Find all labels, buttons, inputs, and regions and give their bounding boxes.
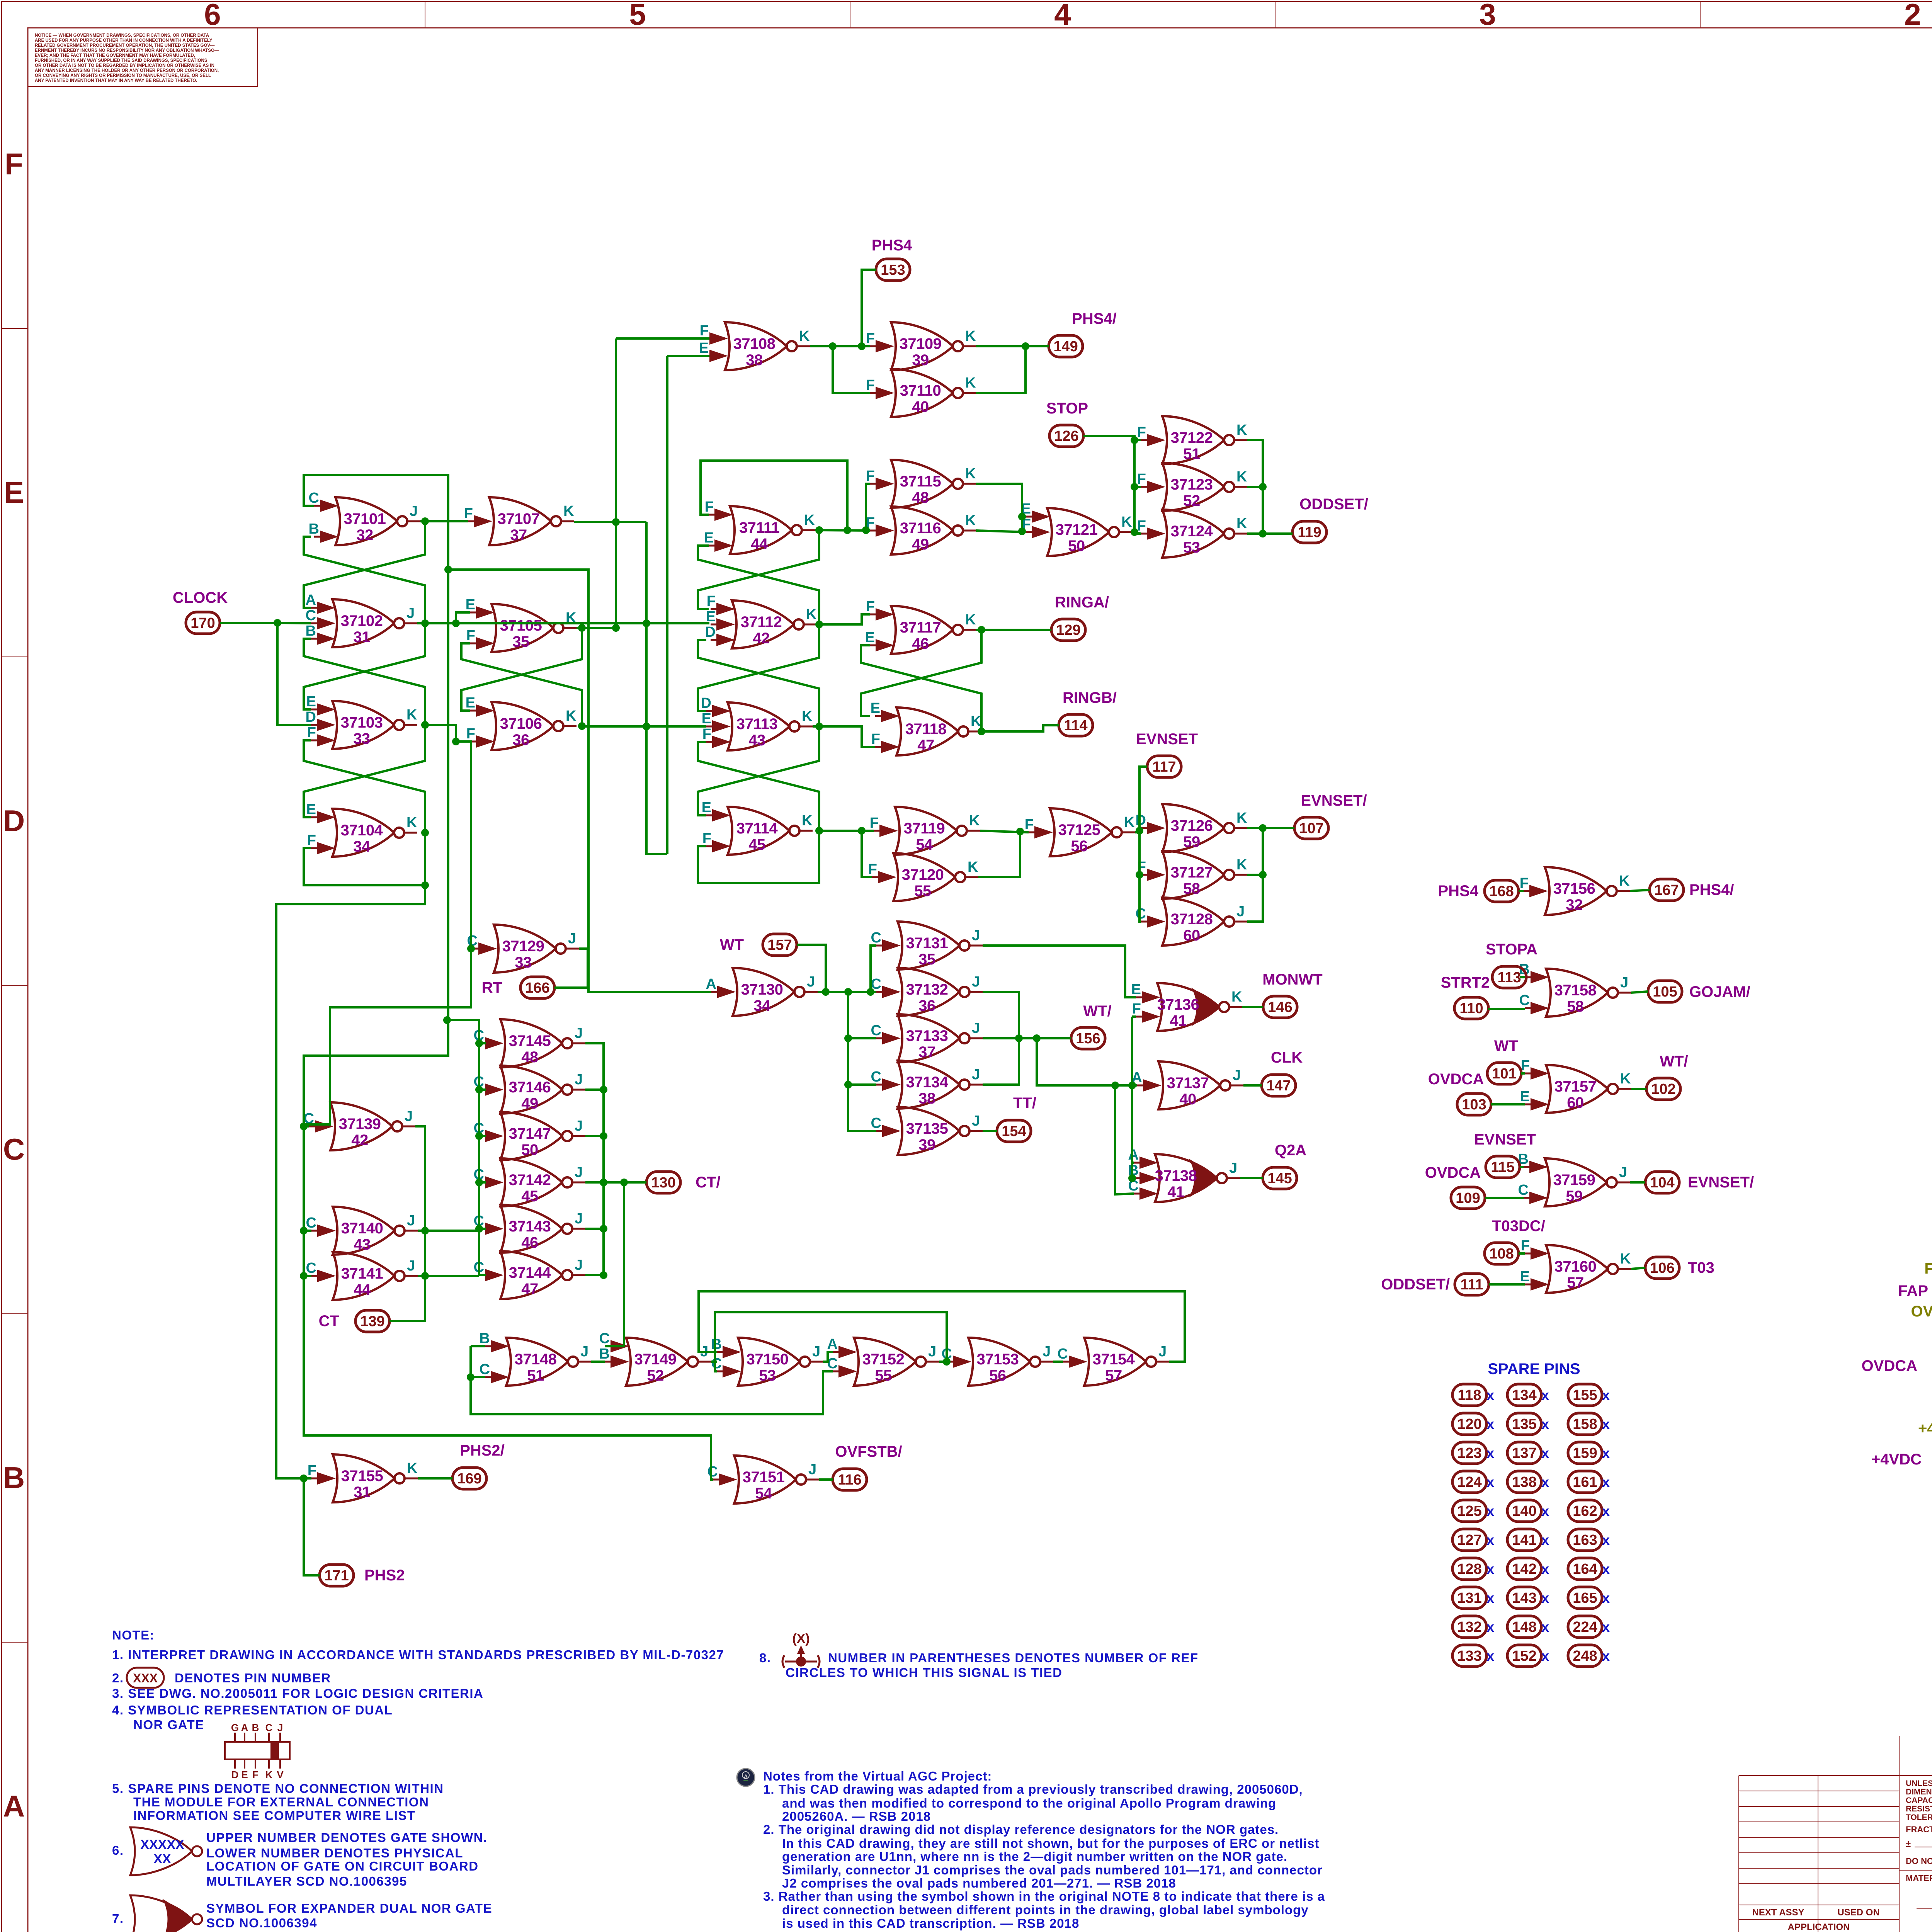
wire cross 37112/37113 upper-out to lower-in bbox=[698, 624, 819, 711]
svg-text:44: 44 bbox=[751, 536, 768, 553]
svg-text:THE MODULE FOR EXTERNAL CONNEC: THE MODULE FOR EXTERNAL CONNECTION bbox=[133, 1795, 429, 1809]
svg-text:2005260A. — RSB 2018: 2005260A. — RSB 2018 bbox=[782, 1809, 931, 1823]
NOR gate 37146 (location 49) bbox=[474, 1066, 585, 1114]
svg-text:149: 149 bbox=[1053, 338, 1078, 355]
wire 37109.K to pad 149 bbox=[976, 345, 1049, 347]
svg-text:direct connection between diff: direct connection between different poin… bbox=[782, 1903, 1309, 1917]
svg-text:38: 38 bbox=[746, 352, 763, 369]
svg-text:37139: 37139 bbox=[339, 1116, 381, 1133]
svg-text:152: 152 bbox=[1512, 1648, 1536, 1664]
svg-text:45: 45 bbox=[748, 836, 765, 853]
junction bbox=[1128, 1174, 1136, 1182]
svg-text:167: 167 bbox=[1654, 882, 1679, 898]
svg-text:119: 119 bbox=[1298, 524, 1321, 541]
junction bbox=[1111, 1082, 1119, 1089]
svg-text:INFORMATION SEE COMPUTER WIRE: INFORMATION SEE COMPUTER WIRE LIST bbox=[133, 1808, 416, 1823]
wire stack output trunk bbox=[585, 1043, 604, 1275]
wire 37153.J to 37154.C bbox=[1053, 1361, 1063, 1363]
svg-text:J: J bbox=[928, 1344, 936, 1360]
svg-text:OVDCA: OVDCA bbox=[1862, 1357, 1917, 1374]
wire jog to 37105.E bbox=[456, 612, 470, 623]
NOR gate 37133 (location 37) bbox=[871, 1014, 983, 1062]
svg-text:PHS4: PHS4 bbox=[1438, 883, 1479, 900]
svg-text:113: 113 bbox=[1497, 969, 1521, 986]
svg-text:F: F bbox=[700, 323, 709, 339]
junction bbox=[1131, 436, 1138, 444]
wire trunk to 37138.B bbox=[1132, 1017, 1134, 1178]
NOR gate 37139 (location 42) bbox=[304, 1102, 415, 1150]
connector pad pad 124 (spare) bbox=[1452, 1471, 1486, 1493]
svg-text:B: B bbox=[252, 1722, 259, 1733]
junction bbox=[643, 619, 650, 627]
svg-text:ANY PATENTED INVENTION THAT MA: ANY PATENTED INVENTION THAT MAY IN ANY W… bbox=[35, 78, 197, 83]
zone tick marks bbox=[425, 2, 425, 28]
svg-text:E: E bbox=[699, 340, 709, 356]
wire 37101.C loop to 37130.A bbox=[304, 475, 711, 992]
svg-text:F: F bbox=[707, 593, 716, 609]
wire 37127.K tie bbox=[1247, 874, 1263, 876]
svg-text:154: 154 bbox=[1002, 1123, 1026, 1139]
svg-text:F: F bbox=[1025, 816, 1034, 833]
title block bbox=[1738, 1776, 1739, 1932]
svg-text:J: J bbox=[277, 1722, 283, 1733]
svg-text:G: G bbox=[231, 1722, 239, 1733]
svg-text:111: 111 bbox=[1460, 1277, 1483, 1293]
svg-text:K: K bbox=[965, 328, 976, 344]
svg-text:x: x bbox=[1541, 1416, 1549, 1432]
svg-text:x: x bbox=[1486, 1648, 1494, 1664]
wire stack C stub bbox=[479, 1135, 486, 1137]
svg-text:x: x bbox=[1541, 1648, 1549, 1664]
svg-text:C: C bbox=[711, 1355, 722, 1372]
svg-text:37135: 37135 bbox=[906, 1120, 948, 1137]
svg-text:DO NOT SCALE THIS DRAWING: DO NOT SCALE THIS DRAWING bbox=[1906, 1856, 1932, 1866]
wire pad 101 to 37157.F bbox=[1521, 1072, 1525, 1075]
connector pad pad 113 (STOPA) bbox=[1492, 966, 1526, 988]
svg-text:106: 106 bbox=[1650, 1260, 1674, 1276]
svg-text:J: J bbox=[972, 974, 980, 990]
svg-text:x: x bbox=[1541, 1590, 1549, 1606]
wire 37141.J to 37144.C bbox=[418, 1275, 479, 1277]
svg-text:4: 4 bbox=[1054, 0, 1071, 31]
NOR gate 37111 (location 44) bbox=[704, 499, 815, 554]
svg-text:K: K bbox=[806, 606, 817, 622]
wire stack C stub bbox=[479, 1274, 486, 1276]
wire 37133.J to pad 156 bbox=[983, 1037, 1071, 1039]
svg-text:+4VDC: +4VDC bbox=[1871, 1451, 1922, 1468]
svg-text:and was then modified to corre: and was then modified to correspond to t… bbox=[782, 1796, 1276, 1810]
svg-text:37138: 37138 bbox=[1155, 1167, 1197, 1184]
wire to 37123.F bbox=[1134, 486, 1141, 488]
connector pad pad 135 (spare) bbox=[1507, 1413, 1541, 1435]
svg-text:35: 35 bbox=[918, 951, 935, 968]
Apollo patch logo bbox=[737, 1769, 755, 1786]
svg-text:37126: 37126 bbox=[1171, 817, 1213, 834]
svg-text:NOTICE — WHEN GOVERNMENT DRAWI: NOTICE — WHEN GOVERNMENT DRAWINGS, SPECI… bbox=[35, 33, 209, 38]
NOR gate 37158 (location 58) bbox=[1519, 961, 1631, 1017]
svg-text:56: 56 bbox=[989, 1367, 1006, 1384]
svg-text:F: F bbox=[1137, 424, 1146, 440]
svg-text:138: 138 bbox=[1512, 1474, 1536, 1490]
svg-text:J: J bbox=[1620, 975, 1628, 991]
wire 37118.K to pad 114 bbox=[981, 725, 1059, 731]
svg-text:D: D bbox=[701, 695, 711, 711]
svg-text:K: K bbox=[799, 328, 810, 344]
junction bbox=[300, 1272, 308, 1280]
svg-text:V: V bbox=[277, 1769, 284, 1781]
svg-text:Notes from the Virtual AGC Pro: Notes from the Virtual AGC Project: bbox=[763, 1769, 992, 1783]
connector pad pad 110 (STRT2) bbox=[1454, 997, 1488, 1019]
svg-text:110: 110 bbox=[1459, 1000, 1483, 1017]
svg-text:NUMBER IN PARENTHESES DENOTES: NUMBER IN PARENTHESES DENOTES NUMBER OF … bbox=[828, 1651, 1199, 1665]
svg-text:F: F bbox=[5, 147, 23, 181]
svg-text:37131: 37131 bbox=[906, 935, 948, 952]
NOR gate 37122 (location 51) bbox=[1137, 416, 1247, 464]
connector pad pad 167 (PHS4/) bbox=[1650, 879, 1684, 901]
connector pad pad 163 (spare) bbox=[1568, 1529, 1602, 1551]
connector pad pad 132 (spare) bbox=[1452, 1616, 1486, 1638]
svg-text:159: 159 bbox=[1573, 1445, 1597, 1461]
svg-text:D: D bbox=[1136, 812, 1146, 828]
svg-text:RINGB/: RINGB/ bbox=[1063, 689, 1117, 706]
svg-text:171: 171 bbox=[324, 1568, 349, 1584]
svg-text:RESISTOR VALUES ARE IN OHMS: RESISTOR VALUES ARE IN OHMS bbox=[1906, 1804, 1932, 1813]
svg-text:3. Rather than using the symbo: 3. Rather than using the symbol shown in… bbox=[763, 1889, 1325, 1903]
junction bbox=[600, 1225, 607, 1233]
wire stack C stub bbox=[479, 1042, 486, 1044]
NOR gate 37154 (location 57) bbox=[1058, 1338, 1169, 1386]
svg-text:37151: 37151 bbox=[743, 1469, 785, 1486]
svg-text:117: 117 bbox=[1152, 759, 1176, 775]
svg-text:37154: 37154 bbox=[1093, 1351, 1135, 1368]
svg-text:37144: 37144 bbox=[509, 1264, 551, 1281]
wire to 37148.C bbox=[471, 1376, 485, 1378]
svg-text:J: J bbox=[575, 1211, 583, 1227]
svg-text:K: K bbox=[969, 813, 980, 829]
wire 37123.K tie bbox=[1247, 486, 1263, 488]
NOR gate 37160 (location 57) bbox=[1520, 1238, 1631, 1293]
svg-text:PHS4/: PHS4/ bbox=[1072, 310, 1117, 327]
junction bbox=[844, 1081, 852, 1088]
svg-text:37107: 37107 bbox=[498, 510, 540, 527]
svg-text:x: x bbox=[1602, 1416, 1610, 1432]
connector pad pad 145 (Q2A) bbox=[1263, 1167, 1297, 1189]
svg-text:J: J bbox=[575, 1118, 583, 1134]
NOR gate 37125 (location 56) bbox=[1025, 808, 1135, 856]
junction bbox=[1136, 871, 1143, 879]
svg-text:OVDCA: OVDCA bbox=[1425, 1164, 1481, 1181]
svg-text:55: 55 bbox=[914, 883, 931, 900]
svg-text:F: F bbox=[705, 499, 714, 515]
connector pad pad 130 (CT/) bbox=[646, 1172, 680, 1193]
svg-text:37160: 37160 bbox=[1554, 1258, 1597, 1275]
connector pad pad 127 (spare) bbox=[1452, 1529, 1486, 1551]
junction bbox=[1259, 871, 1267, 879]
wire 37121.K to 37124.F bbox=[1132, 532, 1141, 534]
wire 37139.J trunk to CT pad 139 bbox=[389, 1126, 425, 1321]
NOR gate 37119 (location 54) bbox=[870, 807, 980, 855]
svg-text:116: 116 bbox=[838, 1472, 861, 1488]
connector pad pad 134 (spare) bbox=[1507, 1384, 1541, 1406]
svg-text:37147: 37147 bbox=[509, 1125, 551, 1142]
junction bbox=[844, 1034, 852, 1042]
svg-text:37111: 37111 bbox=[739, 519, 780, 536]
svg-text:163: 163 bbox=[1573, 1532, 1597, 1548]
NOR gate 37159 (location 59) bbox=[1518, 1151, 1630, 1206]
svg-text:K: K bbox=[965, 375, 976, 391]
wire pad 113 to 37158.B bbox=[1520, 976, 1525, 978]
wire to 37122.F bbox=[1134, 439, 1141, 441]
svg-text:55: 55 bbox=[875, 1367, 892, 1384]
svg-text:133: 133 bbox=[1457, 1648, 1481, 1664]
svg-text:J: J bbox=[1158, 1344, 1167, 1360]
NOR gate 37153 (location 56) bbox=[942, 1338, 1053, 1386]
wire trunk to 37151.C bbox=[304, 570, 713, 1480]
wire 37132/37134.J tie bbox=[983, 992, 1019, 1085]
wire to 37140.C bbox=[304, 1230, 311, 1232]
NOR gate 37124 (location 53) bbox=[1137, 510, 1247, 558]
connector pad pad 117 (EVNSET) bbox=[1147, 756, 1181, 777]
svg-text:137: 137 bbox=[1512, 1445, 1536, 1461]
svg-text:B: B bbox=[3, 1461, 25, 1495]
svg-text:155: 155 bbox=[1573, 1387, 1597, 1403]
svg-text:UNLESS OTHERWISE SPECIFIED: UNLESS OTHERWISE SPECIFIED bbox=[1906, 1779, 1932, 1788]
junction bbox=[815, 621, 823, 628]
junction bbox=[1131, 483, 1138, 491]
svg-text:K: K bbox=[965, 612, 976, 628]
junction bbox=[421, 721, 429, 729]
svg-text:3: 3 bbox=[1479, 0, 1496, 31]
svg-text:A: A bbox=[744, 1773, 748, 1779]
NOR gate 37120 (location 55) bbox=[868, 853, 978, 901]
svg-text:42: 42 bbox=[351, 1132, 368, 1149]
wire to 37108.E bbox=[667, 355, 709, 357]
wire to 37141.C bbox=[304, 1275, 311, 1277]
svg-text:EVNSET: EVNSET bbox=[1474, 1131, 1536, 1148]
NOR gate 37152 (location 55) bbox=[827, 1336, 939, 1386]
svg-text:x: x bbox=[1541, 1503, 1549, 1519]
connector pad pad 224 (spare) bbox=[1568, 1616, 1602, 1638]
NOR gate 37130 (location 34) bbox=[706, 968, 818, 1016]
svg-text:164: 164 bbox=[1573, 1561, 1597, 1577]
svg-text:F: F bbox=[866, 330, 875, 347]
svg-text:143: 143 bbox=[1512, 1590, 1536, 1606]
connector pad pad 137 (spare) bbox=[1507, 1442, 1541, 1464]
svg-text:J: J bbox=[580, 1344, 588, 1360]
svg-text:37114: 37114 bbox=[736, 820, 778, 837]
connector pad pad 248 (spare) bbox=[1568, 1645, 1602, 1667]
junction bbox=[600, 1271, 607, 1279]
svg-text:E: E bbox=[306, 801, 316, 818]
svg-text:135: 135 bbox=[1512, 1416, 1536, 1432]
svg-text:LOCATION OF GATE ON CIRCUIT BO: LOCATION OF GATE ON CIRCUIT BOARD bbox=[206, 1859, 479, 1873]
svg-text:132: 132 bbox=[1457, 1619, 1481, 1635]
svg-text:K: K bbox=[563, 503, 574, 519]
wire to EVNSET pad 117 bbox=[1139, 767, 1147, 831]
svg-text:60: 60 bbox=[1183, 927, 1200, 944]
svg-text:SPARE PINS: SPARE PINS bbox=[1488, 1361, 1580, 1378]
NOR gate 37151 (location 54) bbox=[707, 1456, 819, 1503]
svg-text:40: 40 bbox=[1179, 1091, 1196, 1108]
svg-text:NEXT ASSY: NEXT ASSY bbox=[1752, 1907, 1804, 1918]
svg-text:Similarly, connector J1 compri: Similarly, connector J1 comprises the ov… bbox=[782, 1863, 1323, 1877]
svg-text:37150: 37150 bbox=[747, 1351, 789, 1368]
wire 37129.J to RT pad 166 bbox=[554, 949, 588, 988]
connector pad pad 102 (WT/) bbox=[1646, 1078, 1680, 1100]
junction bbox=[475, 1179, 483, 1186]
svg-text:58: 58 bbox=[1567, 998, 1584, 1015]
wire 37155.K to pad 169 bbox=[418, 1477, 452, 1480]
svg-text:37: 37 bbox=[510, 527, 527, 544]
wire to CT/ pad 130 bbox=[604, 1181, 646, 1184]
wire 37148.J to 37149.B bbox=[591, 1361, 605, 1363]
svg-text:37101: 37101 bbox=[344, 510, 386, 527]
svg-text:C: C bbox=[306, 1260, 316, 1276]
connector pad pad 125 (spare) bbox=[1452, 1500, 1486, 1522]
connector pad pad 170 (CLOCK) bbox=[186, 612, 220, 634]
junction bbox=[421, 619, 429, 627]
svg-text:x: x bbox=[1602, 1387, 1610, 1403]
svg-text:108: 108 bbox=[1489, 1246, 1514, 1262]
wire 37112.K to 37117.F bbox=[817, 614, 870, 624]
connector pad pad 155 (spare) bbox=[1568, 1384, 1602, 1406]
connector pad pad 123 (spare) bbox=[1452, 1442, 1486, 1464]
wire 37125.K to 37126.D bbox=[1135, 828, 1141, 832]
svg-text:K: K bbox=[1236, 469, 1247, 485]
svg-text:35: 35 bbox=[512, 633, 529, 650]
junction bbox=[475, 1086, 483, 1094]
wire 37138.J to Q2A pad 145 bbox=[1240, 1177, 1263, 1179]
connector pad pad 119 (ODDSET/) bbox=[1293, 521, 1327, 543]
NOR gate 37105 (location 35) bbox=[466, 597, 577, 652]
svg-text:K: K bbox=[1236, 515, 1247, 532]
connector pad pad 152 (spare) bbox=[1507, 1645, 1541, 1667]
svg-text:A: A bbox=[3, 1789, 25, 1823]
NOR gate 37123 (location 52) bbox=[1137, 463, 1247, 511]
wire stub to 37138.A bbox=[1132, 1162, 1134, 1164]
svg-text:RT: RT bbox=[482, 979, 502, 996]
svg-text:WT/: WT/ bbox=[1083, 1003, 1111, 1020]
svg-text:2. The original drawing did no: 2. The original drawing did not display … bbox=[763, 1822, 1279, 1837]
svg-text:37130: 37130 bbox=[741, 981, 783, 998]
svg-text:37108: 37108 bbox=[733, 335, 776, 352]
svg-text:128: 128 bbox=[1457, 1561, 1481, 1577]
svg-text:ODDSET/: ODDSET/ bbox=[1299, 496, 1368, 513]
svg-text:57: 57 bbox=[1105, 1367, 1122, 1384]
svg-text:K: K bbox=[566, 708, 577, 724]
svg-text:E: E bbox=[1520, 1088, 1530, 1105]
svg-text:124: 124 bbox=[1457, 1474, 1481, 1490]
svg-text:3. SEE DWG. NO.2005011 FOR LO: 3. SEE DWG. NO.2005011 FOR LOGIC DESIGN … bbox=[112, 1686, 483, 1701]
svg-text:34: 34 bbox=[753, 997, 771, 1014]
wire stack J tie bbox=[585, 1181, 604, 1184]
svg-text:E: E bbox=[241, 1769, 248, 1781]
svg-text:41: 41 bbox=[1167, 1184, 1184, 1201]
svg-text:56: 56 bbox=[1071, 838, 1088, 855]
svg-text:A: A bbox=[241, 1722, 248, 1733]
svg-text:K: K bbox=[407, 1460, 418, 1476]
NOR gate 37136 (location 41) bbox=[1131, 981, 1242, 1031]
svg-text:J: J bbox=[575, 1071, 583, 1088]
wire to 37148.B bbox=[471, 1345, 485, 1347]
svg-text:114: 114 bbox=[1064, 718, 1087, 734]
svg-text:STOPA: STOPA bbox=[1486, 941, 1537, 958]
NOR gate 37112 (location 42) bbox=[705, 593, 817, 648]
connector pad pad 105 (GOJAM/) bbox=[1648, 981, 1682, 1002]
svg-text:NOR GATE: NOR GATE bbox=[133, 1718, 204, 1732]
NOR gate 37144 (location 47) bbox=[474, 1251, 585, 1299]
svg-text:46: 46 bbox=[912, 635, 929, 652]
svg-text:F: F bbox=[252, 1769, 259, 1781]
svg-text:5. SPARE PINS DENOTE NO CONNEC: 5. SPARE PINS DENOTE NO CONNECTION WITHI… bbox=[112, 1781, 444, 1796]
svg-text:F: F bbox=[871, 731, 880, 747]
wire to 37124.F bbox=[1134, 532, 1141, 535]
svg-text:F: F bbox=[466, 628, 475, 644]
svg-text:MULTILAYER SCD NO.1006395: MULTILAYER SCD NO.1006395 bbox=[206, 1874, 407, 1888]
svg-text:J: J bbox=[972, 1066, 980, 1083]
NOR gate 37142 (location 45) bbox=[474, 1158, 585, 1206]
connector pad pad 116 (OVFSTB/) bbox=[833, 1469, 867, 1490]
junction bbox=[1033, 1034, 1041, 1042]
wire stack J tie bbox=[585, 1135, 604, 1137]
svg-text:37122: 37122 bbox=[1171, 429, 1213, 446]
svg-text:C: C bbox=[306, 1215, 316, 1231]
junction bbox=[815, 526, 823, 534]
svg-text:x: x bbox=[1602, 1532, 1610, 1548]
svg-text:F: F bbox=[702, 830, 711, 847]
wire cross 37105/37106 upper-out to lower-in bbox=[461, 628, 582, 711]
svg-text:x: x bbox=[1486, 1503, 1494, 1519]
svg-text:42: 42 bbox=[753, 630, 770, 647]
wire 37159.J to pad 104 bbox=[1630, 1181, 1645, 1184]
junction bbox=[1259, 530, 1267, 537]
wire to 37110.F bbox=[833, 346, 870, 393]
svg-text:37116: 37116 bbox=[900, 520, 941, 537]
svg-text:D: D bbox=[231, 1769, 239, 1781]
svg-text:C: C bbox=[871, 1069, 881, 1085]
svg-text:F: F bbox=[464, 505, 473, 522]
junction bbox=[467, 945, 475, 952]
wire down to 37149.C bbox=[605, 1182, 624, 1346]
svg-text:CAPACITOR VALUES ARE IN uF: CAPACITOR VALUES ARE IN uF bbox=[1906, 1796, 1932, 1805]
NOR gate 37149 (location 52) bbox=[599, 1330, 711, 1386]
wire 37157.K to pad 102 bbox=[1631, 1088, 1646, 1090]
svg-text:J: J bbox=[568, 930, 576, 947]
svg-text:37106: 37106 bbox=[500, 715, 542, 732]
junction bbox=[578, 722, 586, 730]
svg-text:K: K bbox=[1620, 1071, 1631, 1087]
svg-text:37137: 37137 bbox=[1167, 1075, 1209, 1092]
svg-text:162: 162 bbox=[1573, 1503, 1597, 1519]
NOR gate 37113 (location 43) bbox=[701, 695, 813, 750]
junction bbox=[600, 1132, 607, 1140]
svg-text:In this CAD drawing, they are: In this CAD drawing, they are still not … bbox=[782, 1836, 1319, 1850]
junction bbox=[443, 1016, 451, 1024]
svg-text:2.: 2. bbox=[112, 1671, 124, 1685]
svg-text:x: x bbox=[1541, 1561, 1549, 1577]
wire to 37121.E bbox=[1022, 515, 1026, 518]
svg-text:XXX: XXX bbox=[133, 1671, 158, 1685]
wire 37113.K to 37118.F bbox=[813, 726, 875, 747]
svg-text:FAP: FAP bbox=[1898, 1282, 1928, 1299]
junction bbox=[475, 1132, 483, 1140]
svg-text:C: C bbox=[306, 607, 316, 624]
junction bbox=[1018, 527, 1026, 535]
junction bbox=[822, 988, 830, 996]
svg-text:146: 146 bbox=[1268, 999, 1292, 1015]
svg-text:115: 115 bbox=[1491, 1159, 1514, 1175]
svg-text:37156: 37156 bbox=[1553, 880, 1595, 897]
